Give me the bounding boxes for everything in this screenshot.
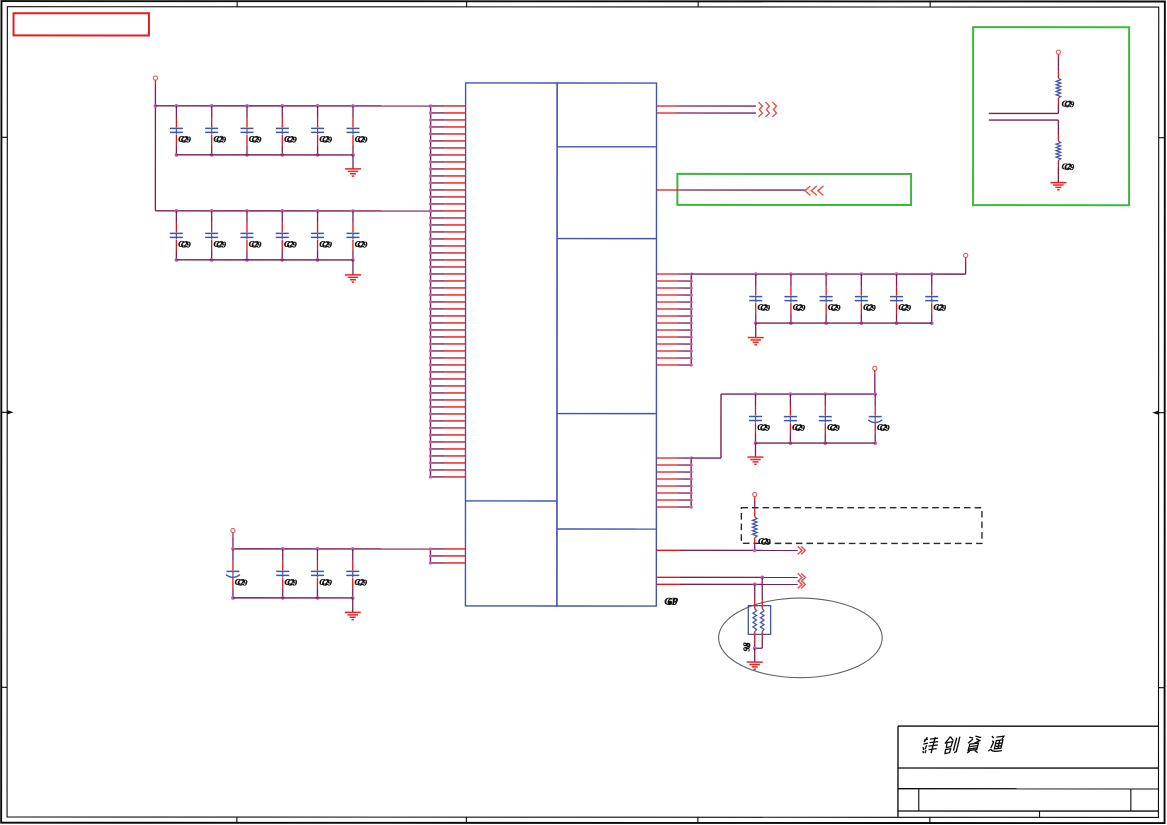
dashed annotation box xyxy=(741,508,982,544)
svg-text:C9: C9 xyxy=(322,578,333,587)
title block xyxy=(898,726,1159,817)
capacitor C6 xyxy=(346,104,368,157)
label GP xyxy=(664,597,678,608)
capacitor C26 xyxy=(346,547,368,600)
capacitor C17 xyxy=(890,272,912,325)
svg-text:C9: C9 xyxy=(357,578,368,587)
capacitor C22 xyxy=(868,392,890,445)
red annotation box xyxy=(14,13,149,35)
capacitor C21 xyxy=(819,392,841,445)
svg-text:C9: C9 xyxy=(287,135,298,144)
wire pin F xyxy=(656,582,797,586)
IC U1 main block xyxy=(465,83,656,606)
off-page connector P9 xyxy=(798,580,806,588)
wire bank5 ground rail xyxy=(233,597,353,599)
wire pin B xyxy=(657,112,756,114)
svg-text:C9: C9 xyxy=(216,240,227,249)
svg-text:C9: C9 xyxy=(761,538,772,547)
wire pin C xyxy=(656,189,804,191)
capacitor C20 xyxy=(784,392,806,445)
ground GND5 xyxy=(747,648,763,669)
wire pin A xyxy=(657,105,756,107)
capacitor C4 xyxy=(276,104,298,157)
power port P6 xyxy=(753,492,757,496)
U1 right pin group 1 wires xyxy=(656,272,692,366)
capacitor C5 xyxy=(311,104,333,157)
svg-text:C9: C9 xyxy=(287,578,298,587)
svg-text:C9: C9 xyxy=(936,304,947,313)
svg-text:C9: C9 xyxy=(830,424,841,433)
capacitor C25 xyxy=(311,547,333,600)
power port P10 xyxy=(231,528,235,532)
wire node B xyxy=(989,120,1059,135)
wire bank4 ground rail xyxy=(755,442,875,444)
resistor R1 xyxy=(752,497,771,551)
U1 bottom left pins xyxy=(429,547,466,564)
svg-text:C9: C9 xyxy=(322,135,333,144)
ground GND3 xyxy=(748,323,764,345)
capacitor C12 xyxy=(346,209,368,262)
power port P4 xyxy=(964,253,968,257)
svg-text:C9: C9 xyxy=(866,304,877,313)
power port P1 xyxy=(153,76,157,80)
svg-text:C9: C9 xyxy=(322,240,333,249)
off-page connector P3 xyxy=(805,186,824,195)
company name Wistron InfoComm xyxy=(922,736,1004,754)
U1 left pins and wire bus xyxy=(429,104,466,478)
wire bank3 ground rail xyxy=(756,322,932,324)
wire bus net VCC3 xyxy=(691,257,965,274)
svg-text:9: 9 xyxy=(746,641,751,651)
power port P5 xyxy=(873,366,877,370)
capacitor C16 xyxy=(855,272,877,325)
svg-text:C9: C9 xyxy=(880,424,891,433)
svg-text:C9: C9 xyxy=(760,304,771,313)
wire P1 feeder xyxy=(154,80,158,211)
svg-text:C9: C9 xyxy=(1064,163,1075,172)
ground GND2 xyxy=(345,260,361,282)
wire bus net VCC5 xyxy=(233,533,431,563)
capacitor C3 xyxy=(240,104,262,157)
ground GND7 xyxy=(1050,166,1066,190)
capacitor C11 xyxy=(311,209,333,262)
green highlight box 2 xyxy=(973,27,1129,205)
off-page connector P8 xyxy=(798,573,806,581)
capacitor C9 xyxy=(240,209,262,262)
svg-text:C9: C9 xyxy=(795,424,806,433)
svg-text:C9: C9 xyxy=(796,304,807,313)
wire node A xyxy=(989,104,1059,113)
U1 right pin group 2 wires xyxy=(656,456,692,508)
capacitor C23 xyxy=(226,547,248,600)
power port P11 xyxy=(1056,50,1060,54)
svg-text:C9: C9 xyxy=(181,135,192,144)
capacitor C18 xyxy=(925,272,947,325)
resistor R2 xyxy=(1056,54,1075,109)
resistor R3 xyxy=(1056,135,1075,172)
wire bank2 ground rail xyxy=(176,259,353,261)
resistor pack RN1 xyxy=(741,577,770,651)
ellipse annotation xyxy=(719,598,883,678)
off-page connector P7 xyxy=(798,546,806,554)
svg-text:69: 69 xyxy=(667,597,677,608)
wire bus net VCC2 xyxy=(155,209,432,213)
ground GND1 xyxy=(345,155,361,176)
svg-text:C9: C9 xyxy=(760,424,771,433)
capacitor C13 xyxy=(749,272,771,325)
capacitor C24 xyxy=(276,547,298,600)
svg-text:C9: C9 xyxy=(287,240,298,249)
capacitor C15 xyxy=(820,272,842,325)
off-page connector P2 xyxy=(758,102,776,117)
capacitor C10 xyxy=(276,209,298,262)
capacitor C2 xyxy=(205,104,227,157)
svg-text:C9: C9 xyxy=(252,240,263,249)
wire bank1 ground rail xyxy=(176,154,353,156)
svg-text:C9: C9 xyxy=(252,135,263,144)
svg-text:C9: C9 xyxy=(358,240,369,249)
ground GND6 xyxy=(345,598,361,620)
wire bus net VCC4 xyxy=(691,370,875,458)
svg-text:C9: C9 xyxy=(358,135,369,144)
green highlight box 1 xyxy=(677,174,911,205)
svg-text:C9: C9 xyxy=(181,240,192,249)
svg-text:C9: C9 xyxy=(831,304,842,313)
capacitor C1 xyxy=(170,104,192,157)
capacitor C19 xyxy=(749,392,771,445)
wire pin E xyxy=(656,575,797,579)
svg-text:C9: C9 xyxy=(901,304,912,313)
capacitor C7 xyxy=(170,209,192,262)
capacitor C14 xyxy=(784,272,806,325)
svg-text:C9: C9 xyxy=(238,578,249,587)
wire bus net VCC1 xyxy=(155,105,430,107)
svg-text:C9: C9 xyxy=(1064,100,1075,109)
svg-text:C9: C9 xyxy=(216,135,227,144)
capacitor C8 xyxy=(205,209,227,262)
ground GND4 xyxy=(747,443,763,464)
wire pin D xyxy=(656,548,797,552)
